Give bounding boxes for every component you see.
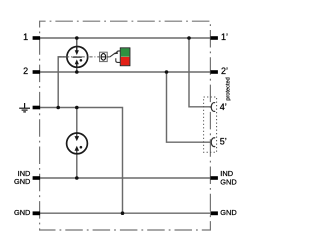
wire GND rail (40, 212, 210, 214)
F2 top arrow (75, 136, 80, 141)
terminal pad 1' (210, 36, 218, 40)
svg-text:2: 2 (23, 66, 28, 76)
terminal pad IND GND left (33, 176, 41, 180)
junction dot earth/center electrode (56, 106, 60, 110)
F2 inner electrode stubs (76, 132, 78, 136)
svg-text:2’: 2’ (221, 66, 228, 76)
wire line 1 (terminal 1 to 1') (40, 37, 210, 39)
svg-text:1: 1 (23, 32, 28, 42)
terminal pad 2 (33, 70, 41, 74)
switch arm diagonal (110, 53, 116, 57)
thermal disconnect device box (100, 52, 108, 61)
gas discharge tube F2 (2-electrode, indirect ground) circle (67, 133, 88, 154)
F2 gas-filled dot (80, 146, 83, 149)
wire GDT2 vertical feed (76, 108, 78, 179)
5' plug contact hook (211, 138, 215, 147)
wire earth rail (40, 108, 123, 214)
svg-text:4’: 4’ (220, 102, 227, 112)
mechanical linkage dash-dot line to thermal device (58, 56, 99, 58)
svg-text:1’: 1’ (221, 32, 228, 42)
F1 inner electrode stubs (76, 46, 78, 51)
F2 bottom arrow (75, 146, 80, 151)
F1 bottom arrow (75, 59, 79, 64)
junction dot earth/GDT2 (75, 106, 79, 110)
svg-text:5’: 5’ (220, 137, 227, 147)
red field contact hook (116, 58, 121, 62)
status indicator green/red (120, 48, 130, 66)
gas discharge tube F1 (3-electrode) circle (67, 47, 88, 68)
F1 top electrode stub (76, 38, 78, 51)
svg-text:GND: GND (14, 208, 30, 217)
F1 center electrode bar (72, 56, 81, 58)
switch stub from thermal box (107, 56, 110, 58)
switch arrowhead (114, 51, 118, 54)
junction dot line2/5' feed (165, 70, 169, 74)
wire IND GND rail (40, 177, 210, 179)
svg-text:GND: GND (14, 177, 30, 186)
4' plug contact hook (211, 103, 215, 112)
F1 bottom electrode stub (76, 64, 78, 72)
junction dot line2/GDT1 (75, 70, 79, 74)
enclosure dash-dot border (40, 21, 211, 230)
F1 gas-filled dot (80, 59, 83, 62)
wire 5' feed from line 2 (167, 72, 211, 142)
terminal pad 2' (210, 70, 218, 74)
junction dot line1/4' feed (187, 36, 191, 40)
terminal pad GND left (33, 211, 41, 215)
protected-side dotted box (204, 97, 217, 152)
terminal pad IND GND right (210, 176, 218, 180)
svg-text:GND: GND (220, 177, 236, 186)
switch link to green field (117, 50, 121, 53)
F1 top arrow (75, 50, 79, 55)
junction dot IND GND/GDT2 (75, 176, 79, 180)
terminal pad 1 (33, 36, 41, 40)
terminal pad GND right (210, 211, 218, 215)
junction dot line1/GDT1 (75, 36, 79, 40)
svg-text:GND: GND (220, 208, 236, 217)
theta glyph (drawn) (101, 54, 106, 61)
junction dot GND/earth drop (121, 211, 125, 215)
wire line 2 (terminal 2 to 2') (40, 71, 210, 73)
wire 4' feed from line 1 (189, 38, 211, 107)
terminal pad earth (33, 106, 41, 110)
earth symbol (19, 103, 30, 112)
svg-text:protected: protected (225, 77, 231, 100)
wire GDT1 center electrode to earth (58, 57, 67, 108)
